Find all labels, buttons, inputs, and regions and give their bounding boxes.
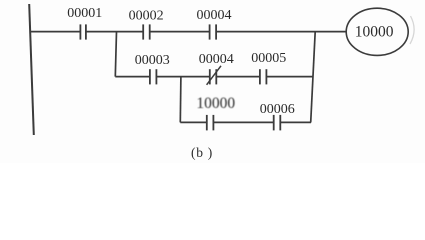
coil 10000 (346, 8, 408, 55)
wire rung3 contact 00006 to right bus (280, 121, 311, 123)
svg-text:10000: 10000 (355, 23, 394, 40)
svg-text:00005: 00005 (251, 51, 286, 66)
svg-text:00003: 00003 (135, 53, 170, 68)
svg-text:00004: 00004 (199, 52, 234, 67)
ghost parenthesis artifact right of coil (410, 16, 414, 44)
contact 00005 (260, 69, 267, 84)
contact 10000 (207, 115, 214, 130)
contact 00004 rung1 (210, 24, 217, 39)
wire rung3 contact 10000 to contact 00006 (213, 121, 273, 123)
svg-text:(b ): (b ) (191, 145, 213, 160)
wire rung1 contact 00001 to contact 00002 (86, 31, 143, 33)
contact 00006 (274, 115, 281, 130)
wire branch down from rung1 to rung2 (115, 32, 116, 77)
wire rung3 branch to contact 10000 (180, 121, 207, 123)
wire rung1 contact 00004 to coil (216, 31, 346, 33)
contact 00001 (80, 24, 86, 39)
contact 00004 NC rung2 (207, 66, 221, 85)
wire branch down from rung2 to rung3 (179, 77, 182, 123)
wire rung2 branch to contact 00003 (115, 76, 150, 78)
left power rail (29, 4, 34, 135)
contact 00002 (143, 24, 150, 39)
svg-text:10000: 10000 (196, 95, 235, 112)
svg-text:00002: 00002 (129, 9, 164, 24)
wire rung1 segment rail to contact 00001 (30, 31, 80, 33)
wire rung1 contact 00002 to contact 00004 (150, 31, 210, 33)
contact 00003 (150, 69, 157, 84)
svg-text:00004: 00004 (197, 8, 232, 23)
svg-text:00006: 00006 (260, 102, 295, 117)
wire right bus vertical joining rungs (311, 32, 316, 123)
wire rung2 contact 00003 to contact 00004 (156, 76, 209, 78)
svg-text:00001: 00001 (67, 6, 102, 21)
wire rung2 contact 00004 to contact 00005 (216, 76, 260, 78)
wire rung2 contact 00005 to right bus (266, 76, 313, 78)
